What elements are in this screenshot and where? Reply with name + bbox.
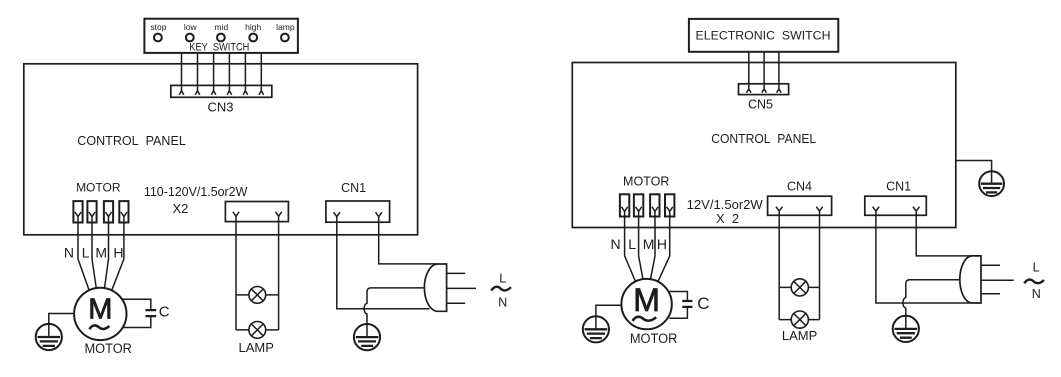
svg-text:N: N bbox=[64, 244, 74, 260]
svg-text:CN1: CN1 bbox=[886, 179, 911, 193]
svg-text:MOTOR: MOTOR bbox=[76, 181, 121, 195]
label CN5 bbox=[748, 97, 773, 111]
svg-text:H: H bbox=[113, 244, 123, 260]
wire CN1 pin2 to plug right bbox=[916, 215, 971, 256]
wire H to motor right bbox=[658, 217, 670, 282]
wire lamp rung 1 right bbox=[779, 286, 819, 288]
svg-text:N: N bbox=[1032, 287, 1041, 301]
svg-text:CONTROL PANEL: CONTROL PANEL bbox=[77, 133, 186, 148]
svg-text:L: L bbox=[499, 271, 506, 285]
key switch box bbox=[144, 19, 298, 53]
svg-text:C: C bbox=[697, 294, 709, 313]
svg-text:110-120V/1.5or2W: 110-120V/1.5or2W bbox=[144, 184, 248, 199]
wire M to motor right bbox=[651, 217, 656, 280]
wire switch pin2 bbox=[762, 52, 767, 93]
svg-text:L: L bbox=[82, 244, 90, 260]
label L line bbox=[499, 271, 506, 285]
label MOTOR lower right bbox=[630, 331, 678, 346]
label CONTROL PANEL bbox=[77, 133, 186, 148]
label X 2 bbox=[716, 211, 739, 226]
plug prong E bbox=[447, 287, 476, 289]
indicator high bbox=[249, 34, 257, 42]
svg-text:lamp: lamp bbox=[276, 22, 295, 32]
motor M2 bbox=[621, 279, 671, 329]
label N line bbox=[498, 295, 507, 309]
svg-text:L: L bbox=[1033, 260, 1040, 274]
svg-text:CN3: CN3 bbox=[207, 99, 233, 114]
motor connector pin M bbox=[104, 201, 113, 222]
label M right bbox=[643, 236, 655, 252]
motor connector pin M right bbox=[650, 194, 659, 216]
svg-text:MOTOR: MOTOR bbox=[623, 174, 669, 188]
indicator stop bbox=[154, 34, 162, 42]
label N right line bbox=[1032, 287, 1041, 301]
svg-text:CN5: CN5 bbox=[748, 97, 773, 111]
svg-text:X 2: X 2 bbox=[716, 211, 739, 226]
ground motor left bbox=[36, 324, 62, 350]
plug prong E right bbox=[981, 279, 1014, 281]
label ELECTRONIC SWITCH bbox=[696, 29, 831, 43]
wire motor to ground right bbox=[596, 305, 622, 316]
label M bbox=[95, 244, 107, 260]
label H right bbox=[657, 236, 667, 252]
label CN1 right bbox=[886, 179, 911, 193]
lamp 2 right bbox=[791, 311, 808, 328]
plug prong N right bbox=[981, 293, 1000, 295]
svg-text:high: high bbox=[245, 22, 261, 32]
wire lamp rung 1 bbox=[236, 294, 279, 296]
wire panel to ground bbox=[956, 161, 992, 172]
motor connector pin H bbox=[119, 201, 128, 222]
label L right line bbox=[1033, 260, 1040, 274]
plug prong N bbox=[447, 302, 466, 304]
motor connector pin N bbox=[73, 201, 82, 222]
control panel box bbox=[24, 64, 418, 235]
CN1 right pin 2 bbox=[913, 207, 919, 216]
label LAMP bbox=[238, 340, 273, 355]
label CN3 bbox=[207, 99, 233, 114]
label C bbox=[159, 304, 170, 321]
connector CN5 bbox=[739, 84, 789, 95]
svg-text:stop: stop bbox=[150, 22, 166, 32]
connector CN3 bbox=[171, 85, 272, 97]
label X2 bbox=[172, 201, 188, 216]
wire H to motor bbox=[112, 223, 124, 291]
svg-text:MOTOR: MOTOR bbox=[84, 341, 132, 356]
CN1 pin 2 bbox=[376, 212, 382, 222]
motor connector pin L bbox=[87, 201, 96, 222]
svg-text:CN4: CN4 bbox=[787, 179, 812, 193]
wire L to motor bbox=[92, 223, 96, 289]
svg-text:N: N bbox=[498, 295, 507, 309]
svg-text:M: M bbox=[95, 244, 107, 260]
label H bbox=[113, 244, 123, 260]
indicator lamp bbox=[281, 34, 289, 42]
earth wire to plug right bbox=[903, 280, 960, 316]
wire L to motor right bbox=[639, 217, 643, 280]
wire lamp right bbox=[278, 222, 280, 330]
svg-text:LAMP: LAMP bbox=[238, 340, 273, 355]
motor connector pin N right bbox=[620, 194, 629, 216]
svg-text:KEY SWITCH: KEY SWITCH bbox=[189, 42, 249, 54]
svg-text:low: low bbox=[184, 22, 198, 32]
svg-text:12V/1.5or2W: 12V/1.5or2W bbox=[687, 197, 764, 212]
wire CN1 pin1 to plug bbox=[337, 222, 430, 309]
label low bbox=[184, 22, 198, 32]
plug body right bbox=[960, 256, 981, 303]
wire key switch pin4 bbox=[227, 53, 232, 95]
label C right bbox=[697, 294, 709, 313]
svg-text:CONTROL PANEL: CONTROL PANEL bbox=[711, 131, 816, 146]
capacitor C right bbox=[669, 292, 693, 319]
label 110-120V/1.5or2W bbox=[144, 184, 248, 199]
label high bbox=[245, 22, 261, 32]
label N bbox=[64, 244, 74, 260]
CN1 right pin 1 bbox=[873, 207, 879, 216]
wire N to motor right bbox=[625, 217, 636, 282]
wire motor to ground bbox=[49, 314, 74, 324]
label lamp bbox=[276, 22, 295, 32]
ground plug right bbox=[893, 316, 919, 342]
svg-text:ELECTRONIC SWITCH: ELECTRONIC SWITCH bbox=[696, 29, 831, 43]
svg-text:MOTOR: MOTOR bbox=[630, 331, 678, 346]
svg-text:M: M bbox=[88, 294, 112, 326]
wire CN1 pin1 to plug right bbox=[876, 215, 971, 303]
motor connector pin L right bbox=[634, 194, 643, 216]
label CONTROL PANEL right bbox=[711, 131, 816, 146]
wire lamp rung 2 bbox=[236, 329, 279, 331]
plug prong L bbox=[447, 272, 466, 274]
ac symbol right bbox=[1024, 280, 1044, 284]
motor connector pin H right bbox=[665, 194, 674, 216]
lamp connector pin 2 bbox=[276, 212, 282, 222]
svg-text:X2: X2 bbox=[172, 201, 188, 216]
indicator low bbox=[186, 34, 194, 42]
wire key switch pin1 bbox=[179, 53, 184, 95]
svg-text:H: H bbox=[657, 236, 667, 252]
connector CN1 bbox=[326, 201, 390, 222]
svg-text:CN1: CN1 bbox=[341, 181, 366, 195]
CN1 pin 1 bbox=[334, 212, 340, 222]
label stop bbox=[150, 22, 166, 32]
ground plug left bbox=[354, 324, 380, 350]
CN4 pin 2 bbox=[816, 207, 822, 216]
label CN1 bbox=[341, 181, 366, 195]
svg-text:L: L bbox=[628, 236, 636, 252]
CN4 pin 1 bbox=[776, 207, 782, 216]
connector CN1 right bbox=[865, 196, 927, 215]
svg-text:N: N bbox=[610, 236, 620, 252]
label KEY SWITCH bbox=[189, 42, 249, 54]
label MOTOR connector right bbox=[623, 174, 669, 188]
label CN4 bbox=[787, 179, 812, 193]
plug prong L right bbox=[981, 264, 1000, 266]
wire key switch pin2 bbox=[195, 53, 200, 95]
svg-text:mid: mid bbox=[215, 22, 229, 32]
wire key switch pin5 bbox=[243, 53, 248, 95]
wire lamp rung 2 right bbox=[779, 319, 819, 321]
lamp 1 right bbox=[791, 279, 808, 296]
lamp 2 bbox=[249, 322, 266, 339]
svg-text:LAMP: LAMP bbox=[782, 328, 817, 343]
ground panel right bbox=[979, 171, 1004, 196]
ac symbol bbox=[491, 287, 511, 291]
wire switch pin1 bbox=[747, 52, 752, 93]
svg-text:M: M bbox=[643, 236, 655, 252]
wire CN1 pin2 to plug bbox=[379, 222, 438, 264]
wire lamp right right-diagram bbox=[819, 215, 821, 319]
capacitor C bbox=[122, 299, 156, 327]
label MOTOR lower bbox=[84, 341, 132, 356]
ground motor right diagram bbox=[583, 316, 609, 342]
label N right bbox=[610, 236, 620, 252]
wire key switch pin3 bbox=[211, 53, 216, 95]
connector CN4 bbox=[768, 196, 832, 215]
label 12V/1.5or2W bbox=[687, 197, 764, 212]
plug body left bbox=[424, 264, 446, 311]
wire key switch pin6 bbox=[259, 53, 264, 95]
label LAMP right bbox=[782, 328, 817, 343]
lamp connector pin 1 bbox=[233, 212, 239, 222]
indicator mid bbox=[217, 34, 225, 42]
wire lamp left right-diagram bbox=[778, 215, 780, 319]
lamp 1 bbox=[249, 287, 266, 304]
motor M1 bbox=[74, 288, 126, 340]
svg-text:C: C bbox=[159, 304, 170, 321]
wire switch pin3 bbox=[777, 52, 782, 93]
label L right bbox=[628, 236, 636, 252]
label L bbox=[82, 244, 90, 260]
electronic switch box bbox=[689, 19, 838, 52]
label MOTOR connector bbox=[76, 181, 121, 195]
wire N to motor bbox=[78, 223, 89, 291]
label mid bbox=[215, 22, 229, 32]
wire M to motor bbox=[105, 223, 109, 289]
svg-text:M: M bbox=[633, 282, 660, 318]
control panel box right bbox=[572, 63, 956, 228]
lamp connector bbox=[225, 202, 288, 222]
earth wire to plug bbox=[364, 288, 425, 324]
wire lamp left bbox=[235, 222, 237, 330]
